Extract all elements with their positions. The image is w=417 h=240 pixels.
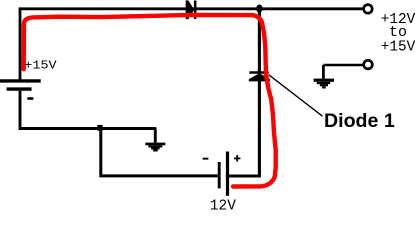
battery B1 bottom plate <box>7 87 32 90</box>
ground G2 stub <box>322 65 325 79</box>
battery B1 +15V top plate <box>0 79 41 82</box>
red highlighted current path <box>24 15 276 187</box>
diode D1 (Diode 1, pointing up) <box>249 73 270 82</box>
wire riser <box>229 9 259 176</box>
battery B2 12V short plate (negative) <box>218 162 221 188</box>
svg-text:Diode 1: Diode 1 <box>324 110 395 132</box>
label +12V to +15V <box>381 11 416 55</box>
terminal T1 <box>364 5 373 14</box>
ground G2 <box>314 79 334 89</box>
svg-text:+15V: +15V <box>24 59 57 73</box>
battery B2 plus label <box>234 155 240 162</box>
battery B2 minus label <box>203 158 209 160</box>
svg-text:+15V: +15V <box>381 38 416 55</box>
wire branch to 12V battery <box>101 129 218 176</box>
top wire <box>20 9 362 80</box>
wire terminal T2 lead <box>323 64 362 67</box>
svg-text:12V: 12V <box>210 198 236 211</box>
wire from B1 to bottom rail <box>20 91 156 129</box>
pointer line to Diode 1 <box>269 75 323 116</box>
battery B1 minus label <box>27 97 33 100</box>
ground G1 <box>145 143 165 152</box>
terminal T2 <box>364 60 373 69</box>
battery B2 12V tall plate (positive) <box>226 152 229 196</box>
ground G1 stub <box>154 129 157 143</box>
diode D2 (top, pointing right) <box>186 0 196 19</box>
node junction J2 <box>97 125 102 131</box>
node junction J1 <box>256 5 263 13</box>
